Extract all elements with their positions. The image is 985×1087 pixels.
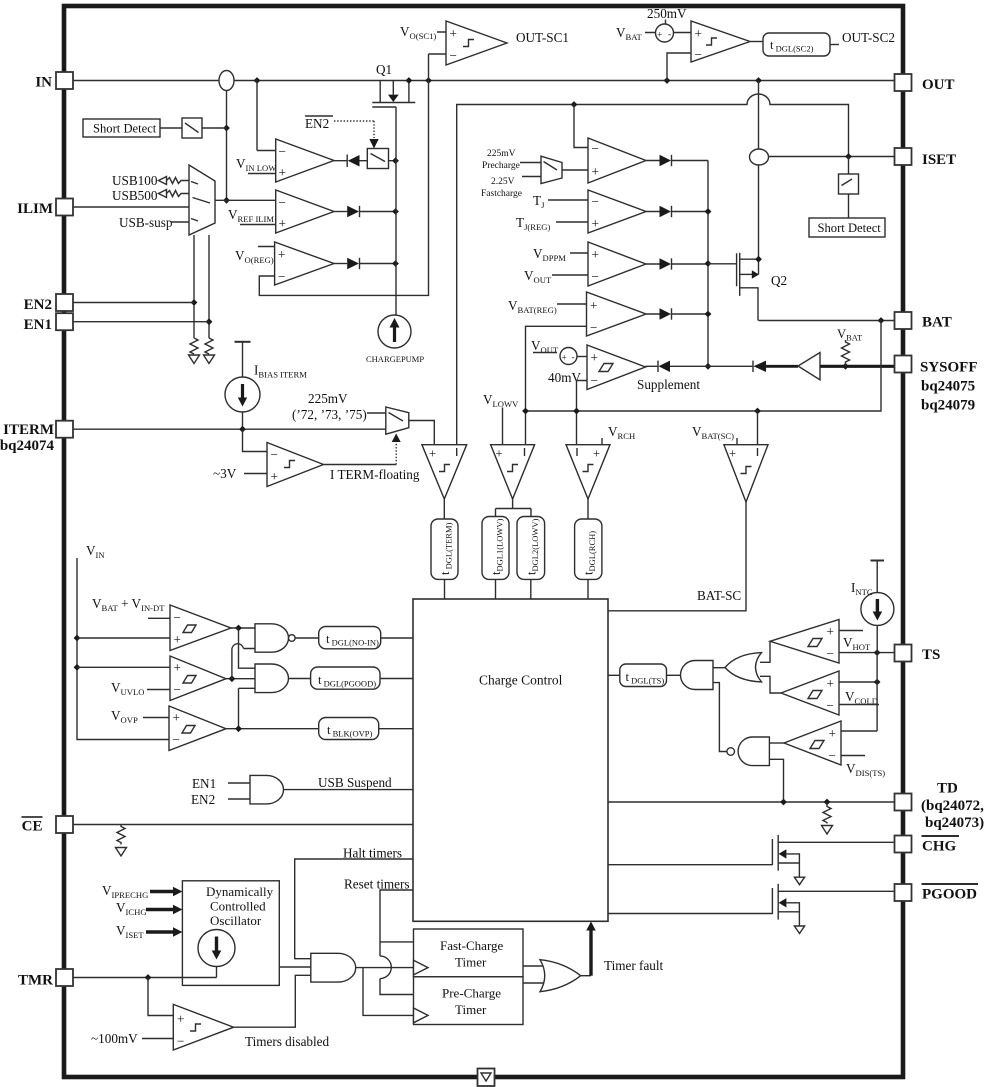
svg-text:bq24073): bq24073)	[925, 815, 984, 831]
svg-text:+: +	[450, 26, 457, 41]
svg-text:−: −	[590, 320, 597, 335]
svg-text:Halt timers: Halt timers	[343, 846, 402, 861]
svg-text:Timer: Timer	[455, 955, 487, 970]
svg-text:+: +	[562, 354, 567, 364]
svg-text:250mV: 250mV	[647, 6, 687, 21]
svg-text:−: −	[592, 194, 599, 209]
svg-text:bq24075: bq24075	[921, 379, 975, 395]
svg-text:−: −	[278, 269, 285, 284]
svg-text:+: +	[695, 26, 702, 41]
svg-text:−: −	[173, 732, 180, 747]
svg-text:TMR: TMR	[18, 973, 53, 989]
svg-text:EN1: EN1	[24, 317, 52, 333]
svg-text:−: −	[592, 269, 599, 284]
svg-text:Fast-Charge: Fast-Charge	[440, 938, 504, 953]
svg-text:Fastcharge: Fastcharge	[481, 189, 522, 199]
svg-text:+: +	[429, 447, 436, 461]
svg-text:+: +	[271, 469, 278, 484]
svg-text:+: +	[729, 447, 736, 461]
svg-text:Reset timers: Reset timers	[344, 877, 410, 892]
svg-text:USB500: USB500	[112, 188, 158, 203]
svg-text:−: −	[829, 748, 836, 763]
svg-text:Q2: Q2	[771, 273, 787, 288]
svg-text:−: −	[279, 144, 286, 159]
svg-text:ITERM: ITERM	[3, 422, 54, 438]
svg-text:Supplement: Supplement	[637, 377, 700, 392]
svg-text:+: +	[177, 1012, 184, 1027]
svg-text:PGOOD: PGOOD	[922, 887, 977, 903]
svg-text:+: +	[829, 726, 836, 741]
svg-text:Q1: Q1	[376, 62, 392, 77]
svg-text:Short Detect: Short Detect	[93, 122, 157, 136]
svg-text:2.25V: 2.25V	[491, 177, 515, 187]
svg-text:+: +	[279, 165, 286, 180]
svg-text:bq24074: bq24074	[0, 438, 54, 454]
svg-text:-: -	[668, 30, 671, 40]
svg-text:225mV: 225mV	[487, 149, 516, 159]
svg-text:225mV: 225mV	[308, 391, 348, 406]
svg-text:(’72, ’73, ’75): (’72, ’73, ’75)	[292, 407, 367, 422]
svg-text:−: −	[271, 447, 278, 462]
svg-text:+: +	[827, 676, 834, 691]
svg-text:-: -	[572, 353, 575, 363]
svg-text:Precharge: Precharge	[482, 161, 520, 171]
svg-text:+: +	[496, 447, 503, 461]
svg-text:I TERM-floating: I TERM-floating	[330, 467, 420, 482]
svg-text:Controlled: Controlled	[210, 899, 266, 914]
svg-text:Short Detect: Short Detect	[818, 221, 882, 235]
svg-text:−: −	[279, 195, 286, 210]
svg-text:+: +	[592, 216, 599, 231]
svg-text:ILIM: ILIM	[17, 201, 53, 217]
svg-text:Timer fault: Timer fault	[604, 958, 664, 973]
svg-text:ISET: ISET	[922, 152, 956, 168]
svg-text:OUT-SC2: OUT-SC2	[842, 30, 895, 45]
svg-text:TD: TD	[937, 781, 958, 797]
svg-text:USB100: USB100	[112, 173, 158, 188]
svg-text:+: +	[592, 164, 599, 179]
svg-text:EN2: EN2	[191, 792, 215, 807]
svg-text:~3V: ~3V	[213, 466, 237, 481]
svg-text:bq24079: bq24079	[921, 398, 975, 414]
svg-text:EN1: EN1	[192, 776, 216, 791]
svg-text:CHARGEPUMP: CHARGEPUMP	[366, 354, 424, 364]
svg-text:+: +	[592, 247, 599, 262]
svg-text:CE: CE	[22, 819, 43, 835]
svg-text:~100mV: ~100mV	[91, 1031, 138, 1046]
svg-text:+: +	[591, 350, 598, 365]
svg-text:OUT-SC1: OUT-SC1	[516, 30, 569, 45]
svg-text:−: −	[174, 682, 181, 697]
svg-text:BAT-SC: BAT-SC	[697, 588, 741, 603]
svg-text:+: +	[590, 298, 597, 313]
svg-text:+: +	[278, 247, 285, 262]
svg-text:−: −	[827, 646, 834, 661]
svg-text:USB Suspend: USB Suspend	[318, 775, 392, 790]
svg-text:TS: TS	[922, 647, 940, 663]
svg-text:EN2: EN2	[305, 116, 329, 131]
svg-text:EN2: EN2	[24, 297, 52, 313]
svg-text:IN: IN	[35, 75, 52, 91]
svg-text:USB-susp: USB-susp	[119, 215, 173, 230]
svg-text:−: −	[827, 698, 834, 713]
svg-text:+: +	[593, 447, 600, 461]
svg-text:Pre-Charge: Pre-Charge	[442, 986, 501, 1001]
svg-text:+: +	[827, 624, 834, 639]
svg-text:OUT: OUT	[922, 77, 955, 93]
svg-text:CHG: CHG	[922, 839, 957, 855]
svg-text:+: +	[174, 660, 181, 675]
svg-text:+: +	[174, 632, 181, 647]
svg-text:Oscillator: Oscillator	[210, 913, 262, 928]
svg-text:−: −	[591, 373, 598, 388]
svg-text:Timer: Timer	[455, 1002, 487, 1017]
svg-text:Charge Control: Charge Control	[479, 673, 563, 688]
svg-text:−: −	[450, 48, 457, 63]
svg-text:BAT: BAT	[922, 315, 952, 331]
svg-text:Timers disabled: Timers disabled	[245, 1034, 330, 1049]
svg-text:+: +	[657, 31, 662, 41]
svg-text:Dynamically: Dynamically	[206, 884, 274, 899]
svg-text:SYSOFF: SYSOFF	[920, 360, 978, 376]
svg-text:−: −	[177, 1034, 184, 1049]
svg-text:(bq24072,: (bq24072,	[921, 798, 984, 814]
svg-text:−: −	[174, 610, 181, 625]
svg-text:−: −	[592, 141, 599, 156]
svg-text:+: +	[279, 216, 286, 231]
svg-text:−: −	[695, 47, 702, 62]
svg-text:+: +	[173, 710, 180, 725]
